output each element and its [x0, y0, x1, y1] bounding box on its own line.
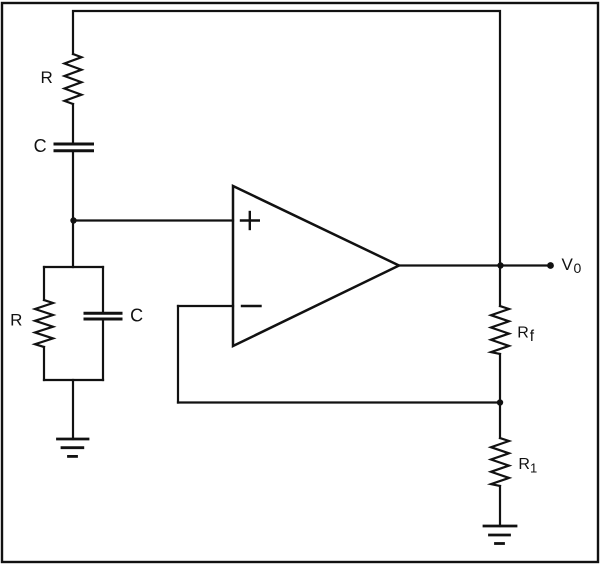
wire resistor R1 to ground	[499, 486, 501, 526]
capacitor C (series, top left)	[55, 144, 93, 151]
node A junction dot	[70, 217, 76, 223]
resistor R (top left)	[65, 54, 82, 104]
svg-text:R: R	[10, 311, 22, 330]
wire node B to resistor R1	[499, 403, 501, 439]
node B junction dot	[497, 399, 503, 405]
resistor R1	[491, 438, 509, 486]
wire box bottom to ground	[72, 380, 74, 439]
wire feedback vertical	[177, 306, 179, 403]
wire output node to resistor Rf	[499, 266, 501, 307]
svg-text:R: R	[41, 68, 53, 87]
op-amp - input symbol	[242, 305, 261, 307]
op-amp + input symbol	[241, 212, 259, 229]
svg-text:C: C	[130, 305, 143, 325]
wire resistor Rf to node B	[499, 354, 501, 403]
wire parallel box right top	[102, 267, 104, 312]
parallel RC box top wire	[44, 266, 103, 268]
resistor R (parallel)	[35, 300, 53, 347]
wire capacitor C to node A	[72, 152, 74, 267]
wire parallel box right bottom	[102, 321, 104, 381]
svg-text:C: C	[34, 136, 47, 156]
terminal V0 dot	[547, 262, 554, 269]
wire op-amp - input	[178, 305, 233, 307]
resistor Rf	[491, 306, 509, 354]
wire node A to op-amp + input	[73, 219, 233, 221]
node output junction dot	[497, 262, 503, 268]
wire parallel box left bottom	[43, 347, 45, 380]
wire resistor R to capacitor C	[72, 104, 74, 143]
wire parallel box left top	[43, 267, 45, 300]
wire feedback horizontal to node B	[178, 401, 500, 403]
parallel RC box bottom wire	[44, 379, 103, 381]
wire op-amp output to V0 terminal	[399, 264, 551, 266]
capacitor C (parallel)	[85, 313, 121, 319]
op-amp U1	[233, 186, 399, 346]
ground (left)	[58, 439, 89, 456]
ground (right)	[484, 526, 516, 544]
wire top horizontal from left branch to right branch	[73, 11, 500, 265]
